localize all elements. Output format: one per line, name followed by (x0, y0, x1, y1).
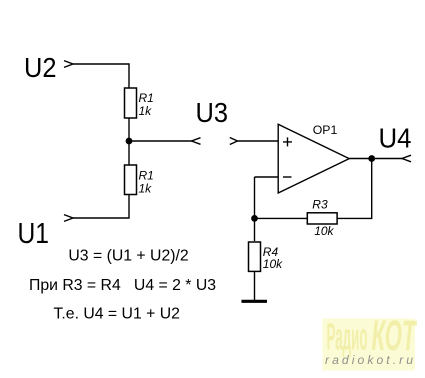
svg-text:U3: U3 (196, 97, 229, 128)
svg-text:10k: 10k (263, 257, 283, 271)
svg-text:U4: U4 (379, 123, 412, 154)
svg-text:1k: 1k (139, 181, 153, 195)
svg-text:Т.е. U4 = U1 + U2: Т.е. U4 = U1 + U2 (54, 305, 180, 322)
svg-text:U3 = (U1 + U2)/2: U3 = (U1 + U2)/2 (68, 247, 188, 264)
svg-text:R3: R3 (312, 198, 328, 212)
svg-text:10k: 10k (314, 224, 334, 238)
svg-text:U1: U1 (18, 218, 50, 250)
svg-text:1k: 1k (139, 104, 153, 118)
svg-text:U2: U2 (24, 52, 57, 83)
svg-text:При R3 = R4 U4 = 2 * U3: При R3 = R4 U4 = 2 * U3 (29, 277, 216, 294)
svg-text:radiokot.ru: radiokot.ru (325, 353, 413, 367)
svg-text:OP1: OP1 (313, 123, 338, 137)
